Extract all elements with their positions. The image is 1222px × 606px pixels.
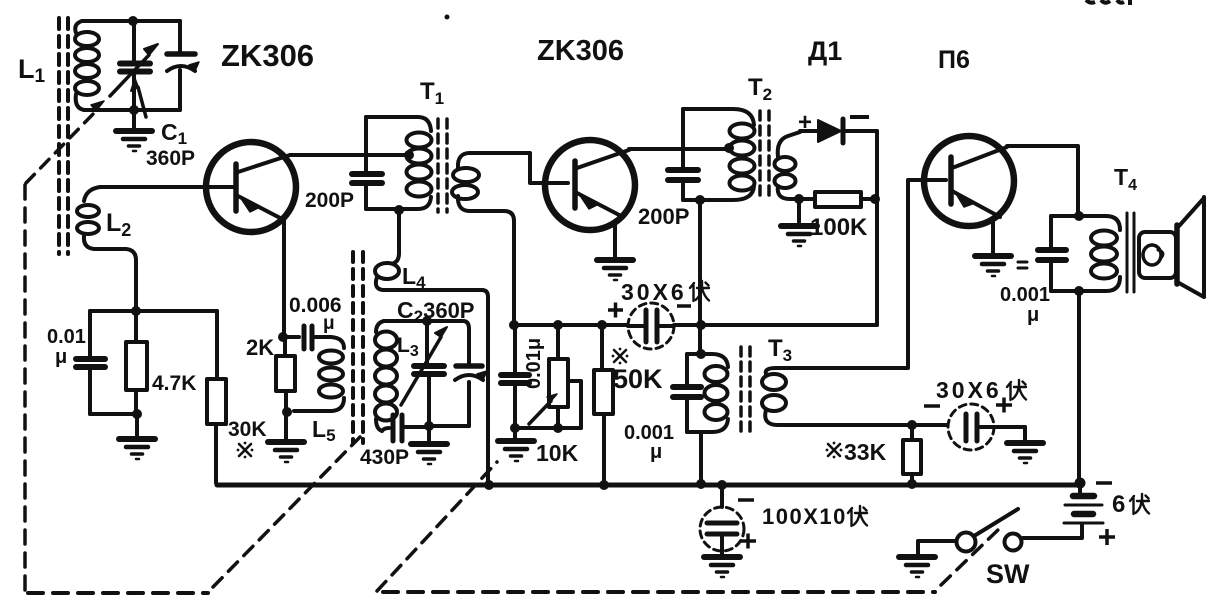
svg-text:0.01: 0.01 — [47, 326, 86, 348]
switch SW — [918, 509, 1022, 554]
node T2 secondary ground junction — [794, 194, 804, 204]
node T1 primary bottom junction — [394, 205, 404, 215]
node bus L4 junction — [484, 480, 494, 490]
electrolytic capacitor 30X6V (second) — [948, 404, 1025, 450]
node 33K junction — [907, 420, 917, 430]
wire T4 bottom down to battery — [1077, 291, 1081, 483]
transistor Q3 circle — [924, 136, 1014, 226]
svg-text:10K: 10K — [536, 440, 579, 466]
transistor Q1 circle — [206, 142, 296, 232]
svg-text:200P: 200P — [305, 189, 354, 212]
node C2 top junction — [422, 316, 432, 326]
capacitor 0.001u (second) — [1038, 247, 1066, 253]
node T3 bottom bus junction — [696, 479, 706, 489]
wire 100K to diode node — [861, 197, 877, 201]
svg-text:100X10: 100X10 — [762, 504, 847, 529]
T4 tank left wire with 0.001u capacitor — [1049, 216, 1053, 247]
svg-text:2K: 2K — [246, 335, 274, 360]
ground under 2K — [284, 412, 288, 440]
wire T3 secondary top to Q3 base — [776, 180, 946, 368]
Q3 emitter line with arrow — [952, 191, 1000, 217]
T3 primary bottom wire — [687, 419, 728, 432]
node bus battery junction — [1075, 478, 1086, 489]
label 50K with mark — [612, 348, 629, 365]
capacitor 0.001u (first) — [673, 384, 701, 390]
svg-text:ZK306: ZK306 — [221, 38, 314, 73]
ground under Q3 — [975, 256, 1011, 276]
electrolytic capacitor 30X6V (first, in rail) — [628, 303, 674, 349]
label 33K with mark — [826, 442, 843, 459]
wire L2 to base of Q1 — [100, 185, 233, 189]
T2 primary left wire with 200P capacitor — [681, 109, 685, 167]
coil L1 — [75, 21, 99, 110]
capacitor 200P (second) — [668, 167, 698, 173]
node T4 top junction — [1074, 211, 1084, 221]
diode D1 — [800, 119, 877, 143]
speaker — [1139, 197, 1204, 297]
coil L4 — [375, 210, 488, 483]
battery 6V — [1023, 483, 1103, 538]
capacitor 0.01u (second) — [501, 325, 529, 428]
stray equals mark — [1018, 262, 1027, 268]
stray print dot — [445, 15, 450, 20]
node: tank bottom junction — [129, 105, 139, 115]
wire tank bottom — [84, 108, 180, 112]
dashed gang-link diagonal to C1 — [26, 111, 96, 183]
svg-text:П6: П6 — [938, 46, 970, 74]
wire Q3 collector to T4 — [1007, 146, 1078, 216]
shield box diagonal dashed (left module) — [213, 437, 360, 587]
svg-text:30X6: 30X6 — [621, 279, 687, 305]
ground under 100X10V — [704, 557, 740, 577]
node bus 100X10V junction — [717, 480, 727, 490]
node collector tap on T1 — [404, 150, 414, 160]
shield box left dashed vertical — [23, 185, 27, 592]
T1 primary left wire with 200P capacitor — [364, 117, 368, 171]
wire Q1 emitter down — [282, 221, 286, 337]
svg-text:μ: μ — [650, 441, 662, 463]
T3 secondary coil — [762, 368, 786, 425]
svg-text:0.01μ: 0.01μ — [523, 338, 545, 389]
svg-text:C2360P: C2360P — [397, 297, 474, 326]
svg-text:360P: 360P — [146, 147, 195, 170]
T1 core (dashed) — [438, 119, 447, 212]
resistor 100K — [815, 192, 861, 207]
svg-text:100K: 100K — [810, 214, 868, 241]
wire Q2 emitter down — [613, 221, 617, 257]
antenna ferrite core (dashed) — [59, 18, 68, 254]
T4 tank bottom wire — [1051, 277, 1120, 291]
T4 core (solid iron) — [1127, 213, 1134, 292]
oscillator tank top wire — [384, 321, 469, 329]
oscillator tank bottom wire — [429, 424, 469, 428]
wire cap/resistor bottom — [90, 412, 137, 416]
ground under C1 — [132, 110, 136, 129]
node T4 bottom junction — [1074, 286, 1084, 296]
svg-text:μ: μ — [55, 346, 67, 368]
potentiometer 10K — [529, 325, 581, 428]
wire tank top — [82, 19, 180, 23]
variable capacitor C2 360P — [401, 321, 447, 426]
node 0.01 bottom junction — [510, 423, 520, 433]
T3 primary coil — [705, 366, 728, 420]
wire bottom bus — [217, 483, 1080, 488]
node rail T2/T3 junction — [696, 320, 706, 330]
T4 primary coil — [1091, 231, 1117, 279]
node T3 top junction — [696, 349, 706, 359]
T2 primary coil — [730, 124, 755, 191]
svg-text:200P: 200P — [638, 204, 689, 229]
T1 primary bottom wire — [366, 197, 431, 209]
Q1 collector line — [238, 155, 290, 172]
resistor 30K — [207, 311, 226, 483]
wire T3 bottom to bus — [699, 432, 703, 484]
wire pot bottom — [515, 426, 581, 430]
ground under oscillator tank — [427, 426, 431, 441]
Q1 base bar — [233, 164, 239, 211]
trimmer capacitor of oscillator tank — [455, 329, 487, 426]
T3 core (dashed) — [741, 347, 750, 432]
ground left of switch — [899, 557, 935, 577]
cropped figure caption fragments top right — [1086, 0, 1130, 5]
node bus 50K junction — [599, 480, 609, 490]
Q2 collector line — [577, 150, 629, 168]
node rail corner — [509, 320, 519, 330]
node pot bottom junction — [553, 423, 563, 433]
wire T1 secondary top to Q2 base — [470, 153, 568, 183]
svg-text:6: 6 — [1112, 491, 1125, 518]
svg-text:μ: μ — [1027, 304, 1039, 326]
svg-text:0.001: 0.001 — [1000, 284, 1050, 306]
oscillator coil core (dashed) — [353, 252, 363, 443]
coil L2 — [77, 187, 136, 311]
wire T1 secondary bottom down to rail — [470, 211, 514, 325]
T3 primary left wire with 0.001u capacitor — [685, 354, 689, 384]
Q3 collector line — [952, 147, 1007, 168]
wire Q3 emitter down — [991, 221, 995, 253]
Q2 emitter line with arrow — [577, 193, 623, 217]
wire Q1 collector to T1 — [290, 153, 405, 157]
Q1 emitter line with arrow — [238, 196, 284, 220]
shield box bottom dashed (left module) — [28, 591, 208, 595]
T1 primary top wire — [366, 117, 431, 131]
T2 secondary coil — [775, 132, 801, 199]
resistor 33K — [903, 425, 921, 484]
node rail 50K junction — [597, 320, 607, 330]
node 33K bus junction — [907, 479, 917, 489]
ground under bias network — [135, 414, 139, 437]
Q3 base bar — [948, 157, 954, 204]
wire diode output down to rail — [875, 131, 879, 325]
ground under 0.01 — [513, 428, 517, 438]
trimmer capacitor of input tank — [167, 54, 199, 71]
svg-text:ZK306: ZK306 — [537, 35, 624, 67]
node T2 primary bottom junction — [695, 195, 705, 205]
svg-text:+: + — [798, 109, 812, 136]
T2 primary top wire — [683, 109, 754, 125]
node 100K right junction — [870, 194, 880, 204]
node tank bottom junction — [424, 421, 434, 431]
T1 primary coil — [407, 133, 432, 197]
wire rail right segment — [674, 323, 877, 327]
svg-text:Д1: Д1 — [808, 36, 842, 66]
transistor Q2 circle — [545, 140, 635, 230]
resistor 4.7K — [126, 311, 147, 414]
svg-text:30K: 30K — [228, 418, 267, 441]
wire bias node horizontal — [90, 309, 217, 313]
variable capacitor C1 main section — [110, 21, 158, 117]
wire tank right — [178, 21, 182, 110]
node: tank top junction — [128, 16, 138, 26]
svg-text:SW: SW — [986, 559, 1030, 589]
node rail 10K junction — [553, 320, 563, 330]
node bias junction — [131, 306, 141, 316]
node bottom junction — [132, 409, 142, 419]
ground under T2 secondary — [797, 199, 801, 222]
capacitor 0.006u — [283, 326, 331, 349]
ground right of 30X6V — [1023, 427, 1027, 440]
node collector tap on T2 — [724, 143, 734, 153]
capacitor 200P (first) — [352, 171, 382, 177]
ground under Q2 — [597, 260, 633, 280]
svg-text:50K: 50K — [613, 364, 663, 394]
resistor 50K — [594, 325, 613, 485]
svg-text:30X6: 30X6 — [936, 377, 1002, 403]
shield box bottom dashed (middle) — [383, 590, 935, 594]
resistor 2K — [276, 337, 295, 412]
node emitter junction — [278, 332, 288, 342]
svg-text:430P: 430P — [360, 446, 409, 469]
wire T2 bottom down through rail to T3 top — [698, 200, 702, 354]
shield box diagonal dashed (middle) — [377, 462, 497, 591]
shield box diagonal dashed (right, near switch) — [941, 528, 1000, 585]
T4 tank top wire — [1051, 216, 1120, 230]
coil L5 — [294, 337, 344, 411]
T1 secondary coil — [452, 153, 479, 211]
wire Q2 collector to T2 — [629, 147, 725, 151]
wire T3 secondary bottom — [778, 423, 947, 427]
Q2 base bar — [572, 161, 578, 208]
capacitor 430P — [382, 415, 429, 441]
wire T2 secondary bottom — [790, 197, 815, 201]
node 2K/L5 bottom junction — [282, 407, 292, 417]
capacitor 0.01u — [76, 311, 105, 414]
svg-text:4.7K: 4.7K — [152, 372, 196, 395]
T2 core (dashed) — [760, 111, 769, 200]
T3 primary top wire — [687, 354, 728, 367]
coil L3 — [375, 321, 397, 431]
electrolytic capacitor 100X10V — [700, 485, 744, 554]
svg-text:33K: 33K — [844, 439, 887, 465]
svg-text:μ: μ — [323, 313, 335, 334]
wire rail left segment — [514, 323, 628, 327]
T2 primary bottom wire — [683, 186, 754, 200]
